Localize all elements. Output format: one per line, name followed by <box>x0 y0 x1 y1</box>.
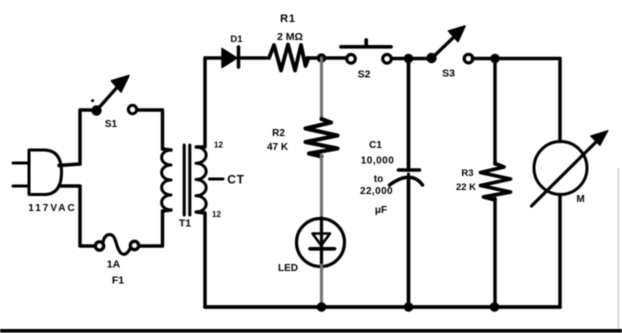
svg-text:22 K: 22 K <box>456 182 476 193</box>
svg-text:S2: S2 <box>358 69 371 81</box>
wire: meter branch lower <box>558 195 561 308</box>
switch S2 actuator bar <box>341 40 391 47</box>
LED cathode bar <box>310 247 335 251</box>
meter M circle <box>534 142 587 195</box>
switch S1 throw contact <box>128 105 136 113</box>
wire: LED to bottom rail (gray) <box>320 265 323 307</box>
wire: C1 branch upper <box>407 59 411 171</box>
switch S1 blade arrow <box>96 76 129 112</box>
svg-text:CT: CT <box>227 173 245 187</box>
wire: primary bottom lead to fuse <box>138 210 171 246</box>
bottom border rule <box>0 329 622 333</box>
svg-text:S3: S3 <box>442 68 455 80</box>
svg-text:T1: T1 <box>179 218 191 230</box>
tick above S1 pole <box>91 99 94 102</box>
node: junction of R1 / R2 branch <box>317 53 327 63</box>
svg-text:47 K: 47 K <box>267 142 289 153</box>
svg-text:1A: 1A <box>107 259 121 271</box>
svg-text:D1: D1 <box>230 34 243 45</box>
diode D1 <box>222 47 239 68</box>
fuse F1 left terminal <box>95 242 103 250</box>
svg-text:10,000: 10,000 <box>361 156 395 167</box>
plug prong upper <box>13 162 29 165</box>
wire: R3 branch lower <box>493 199 496 308</box>
wire: left main vertical (secondary top lead) <box>197 58 206 147</box>
svg-text:M: M <box>576 194 584 205</box>
fuse F1 right terminal <box>130 241 138 249</box>
transformer T1 secondary winding <box>196 147 206 212</box>
wire: S2 right contact to C1 junction <box>392 57 429 60</box>
plug P1 body <box>29 150 62 195</box>
svg-text:2 MΩ: 2 MΩ <box>277 31 303 43</box>
meter M needle arrow <box>532 131 609 207</box>
svg-text:C1: C1 <box>369 140 382 151</box>
scan artifact: faint right edge line <box>618 168 620 330</box>
resistor R1 2 MEG zigzag <box>269 45 309 71</box>
wire: plug to top left vertical <box>59 164 80 166</box>
wire: top rail right segment to meter corner <box>473 57 561 60</box>
svg-text:LED: LED <box>278 263 298 274</box>
resistor R3 zigzag <box>481 164 511 201</box>
svg-text:R2: R2 <box>272 128 285 139</box>
LED triangle <box>313 234 331 246</box>
svg-text:117VAC: 117VAC <box>28 203 77 214</box>
node: bottom junction LED branch <box>317 302 327 312</box>
node: bottom junction R3 branch <box>490 302 500 312</box>
switch S2 (pushbutton) left contact <box>347 55 356 64</box>
wire: meter branch upper <box>558 59 561 142</box>
wire: LED internal lead (black) <box>320 218 323 267</box>
svg-text:F1: F1 <box>112 275 124 287</box>
svg-text:to: to <box>374 174 383 185</box>
node: bottom junction C1 branch <box>404 302 414 312</box>
svg-text:S1: S1 <box>105 119 118 130</box>
plug prong lower <box>13 185 29 188</box>
capacitor C1 top plate <box>399 168 420 172</box>
svg-text:μF: μF <box>375 205 387 216</box>
node: junction of C1 branch <box>404 54 414 64</box>
CT tap dash <box>210 178 224 181</box>
switch S3 blade arrow <box>432 26 466 59</box>
transformer T1 core bars <box>184 145 190 215</box>
wire: R2 to LED (gray) <box>320 155 323 220</box>
svg-text:R3: R3 <box>461 168 473 179</box>
wire: R2/LED branch upper (gray) <box>320 58 323 119</box>
switch S1 pole contact <box>91 105 101 115</box>
wire: primary top lead to S1 <box>137 110 172 150</box>
node: junction of R3 branch top <box>490 54 500 64</box>
svg-text:R1: R1 <box>280 13 296 25</box>
wire: bottom rail <box>205 305 560 309</box>
svg-text:12: 12 <box>214 141 223 150</box>
switch S3 pole contact <box>426 53 436 63</box>
transformer T1 primary winding <box>162 150 171 210</box>
svg-text:22,000: 22,000 <box>360 186 393 197</box>
LED circle <box>297 219 345 267</box>
resistor R2 zigzag <box>306 119 338 157</box>
fuse F1 element <box>103 235 131 255</box>
wire: top rail between R1 and S2 with junction stub <box>307 56 347 59</box>
wire: C1 branch lower <box>407 179 411 308</box>
svg-text:12: 12 <box>212 210 221 219</box>
switch S2 (pushbutton) right contact <box>383 55 392 64</box>
wire: top rail between D1 and R1 <box>239 56 266 59</box>
capacitor C1 bottom plate (curved) <box>390 177 423 185</box>
wire: top rail left segment (secondary top corner to diode anode) <box>205 56 223 59</box>
wire: plug to bottom left vertical <box>59 186 96 246</box>
switch S3 throw contact <box>464 54 473 63</box>
wire: R3 branch upper <box>493 59 496 165</box>
wire: secondary bottom lead down to bottom rail <box>197 212 206 307</box>
wire: S1 pole to left vertical <box>80 110 92 164</box>
